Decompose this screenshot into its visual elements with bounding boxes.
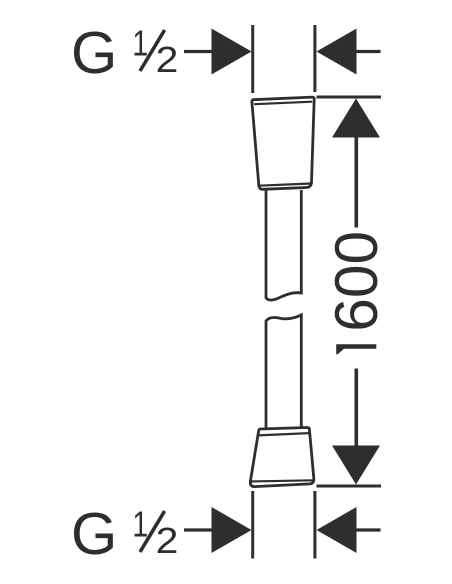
extension line 1600 bottom (317, 485, 382, 488)
svg-text:2: 2 (156, 521, 179, 562)
hose nut bottom (250, 428, 314, 487)
extension line top-right (313, 25, 316, 92)
label G 1/2 top (71, 19, 178, 86)
svg-text:G: G (71, 500, 117, 567)
svg-text:600: 600 (322, 231, 390, 332)
dimension arrow bottom-left (184, 507, 252, 553)
extension line 1600 top (317, 96, 382, 99)
svg-text:G: G (71, 19, 117, 86)
extension line top-left (251, 25, 254, 93)
dimension arrow 1600 up (332, 99, 380, 228)
svg-text:1: 1 (132, 503, 148, 544)
hose upper segment (266, 190, 301, 300)
dimension arrow 1600 down (332, 369, 380, 485)
dimension arrow top-right (317, 29, 381, 75)
extension line bottom-left (251, 491, 254, 559)
dimension arrow bottom-right (317, 507, 381, 553)
hose lower segment (266, 315, 301, 429)
label G 1/2 bottom (71, 500, 178, 567)
extension line bottom-right (313, 491, 316, 559)
svg-text:1: 1 (132, 22, 148, 63)
hose nut top (252, 97, 314, 189)
dimension arrow top-left (184, 29, 252, 75)
svg-text:2: 2 (156, 40, 179, 81)
